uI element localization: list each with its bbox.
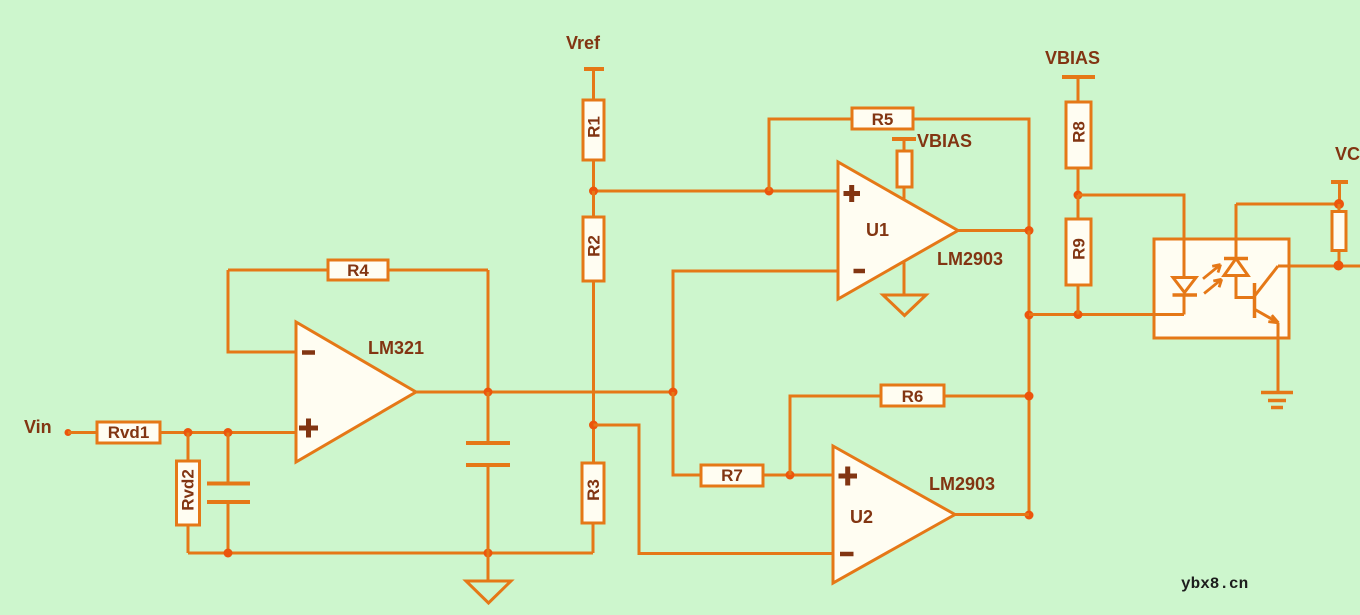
wire R4 feedback to output (487, 270, 490, 392)
wire R8 tap to LED anode (1078, 195, 1184, 278)
svg-text:R1: R1 (585, 116, 604, 138)
junction (1025, 392, 1034, 401)
wire divider tap to U1 + input (594, 190, 839, 193)
junction (484, 549, 493, 558)
junction (1334, 199, 1344, 209)
capacitor C1 (207, 433, 250, 554)
LED in optocoupler (1154, 239, 1197, 315)
node VCC terminal (1331, 182, 1348, 204)
resistor bias U1 (897, 151, 912, 200)
node VBIAS terminal at U1 (892, 139, 916, 151)
junction node A (184, 428, 193, 437)
ground symbol (466, 553, 511, 603)
earth ground symbol (1261, 393, 1293, 408)
svg-text:VBIAS: VBIAS (1045, 48, 1100, 68)
resistor R8 (1066, 102, 1091, 195)
junction R2/R3 tap (589, 421, 598, 430)
wire ground rail (188, 552, 593, 555)
light arrows (1203, 265, 1222, 294)
svg-text:R5: R5 (872, 110, 894, 129)
resistor R5 with feedback wires (769, 108, 1029, 231)
op-amp LM321 (296, 322, 416, 462)
wire U1 - input to output node (673, 271, 838, 392)
junction (1334, 261, 1344, 271)
wire U1 output (958, 229, 1029, 232)
svg-text:R3: R3 (584, 479, 603, 501)
svg-text:VBIAS: VBIAS (917, 131, 972, 151)
junction U1 output (1025, 226, 1034, 235)
wire photodiode to VCC node (1236, 203, 1340, 206)
svg-text:R7: R7 (721, 466, 743, 485)
junction R8/R9 (1074, 191, 1083, 200)
phototransistor (1255, 266, 1279, 392)
wire U2 output (955, 513, 1029, 516)
wire bus to optocoupler LED cathode (1029, 313, 1184, 316)
op-amp U1 (838, 162, 958, 299)
photodiode in optocoupler (1224, 204, 1254, 298)
ground at U1 (883, 261, 926, 316)
junction (224, 549, 233, 558)
svg-text:R2: R2 (585, 235, 604, 257)
wire tap to U2 - input (594, 425, 834, 554)
wire output node to R7 (673, 392, 701, 475)
resistor R9 (1066, 195, 1091, 315)
wire collector output (1278, 265, 1360, 268)
junction U2 output (1025, 511, 1034, 520)
wire op-amp inverting input (228, 270, 296, 352)
junction (1025, 311, 1034, 320)
svg-text:LM2903: LM2903 (929, 474, 995, 494)
junction R9 bottom (1074, 310, 1083, 319)
junction (484, 388, 493, 397)
svg-text:VCC: VCC (1335, 144, 1360, 164)
svg-text:U1: U1 (866, 220, 889, 240)
resistor Rvd1 (97, 422, 160, 443)
wire Rvd1 to op-amp + input (160, 431, 296, 434)
wire main output node (416, 391, 673, 394)
junction node B (224, 428, 233, 437)
wire R6 left leg (790, 396, 881, 475)
junction (765, 187, 774, 196)
resistor R6 (881, 385, 1029, 406)
resistor R7 (701, 465, 833, 486)
svg-text:Vin: Vin (24, 417, 52, 437)
svg-text:Rvd1: Rvd1 (108, 423, 150, 442)
svg-text:R6: R6 (902, 387, 924, 406)
wire shared output bus (1028, 231, 1031, 516)
svg-text:ybx8.cn: ybx8.cn (1181, 575, 1248, 593)
svg-text:R9: R9 (1070, 238, 1089, 260)
resistor pull-up (1332, 204, 1346, 266)
junction (589, 187, 598, 196)
svg-text:R4: R4 (347, 261, 369, 280)
node VBIAS terminal at R8 (1062, 77, 1095, 102)
node Vref terminal (584, 69, 604, 100)
resistor R2 (583, 191, 604, 463)
resistor R4 (228, 260, 488, 280)
junction (669, 388, 678, 397)
resistor Rvd2 (177, 433, 200, 554)
junction (786, 471, 795, 480)
op-amp U2 (833, 446, 955, 583)
node Vin terminal (65, 429, 98, 436)
svg-text:Rvd2: Rvd2 (179, 469, 198, 511)
resistor R1 (583, 100, 604, 191)
optocoupler U3 body (1154, 239, 1289, 338)
svg-text:U2: U2 (850, 507, 873, 527)
svg-text:LM321: LM321 (368, 338, 424, 358)
svg-text:LM2903: LM2903 (937, 249, 1003, 269)
capacitor C2 (466, 392, 510, 553)
svg-text:Vref: Vref (566, 33, 601, 53)
svg-text:R8: R8 (1070, 121, 1089, 143)
resistor R3 (582, 463, 604, 553)
